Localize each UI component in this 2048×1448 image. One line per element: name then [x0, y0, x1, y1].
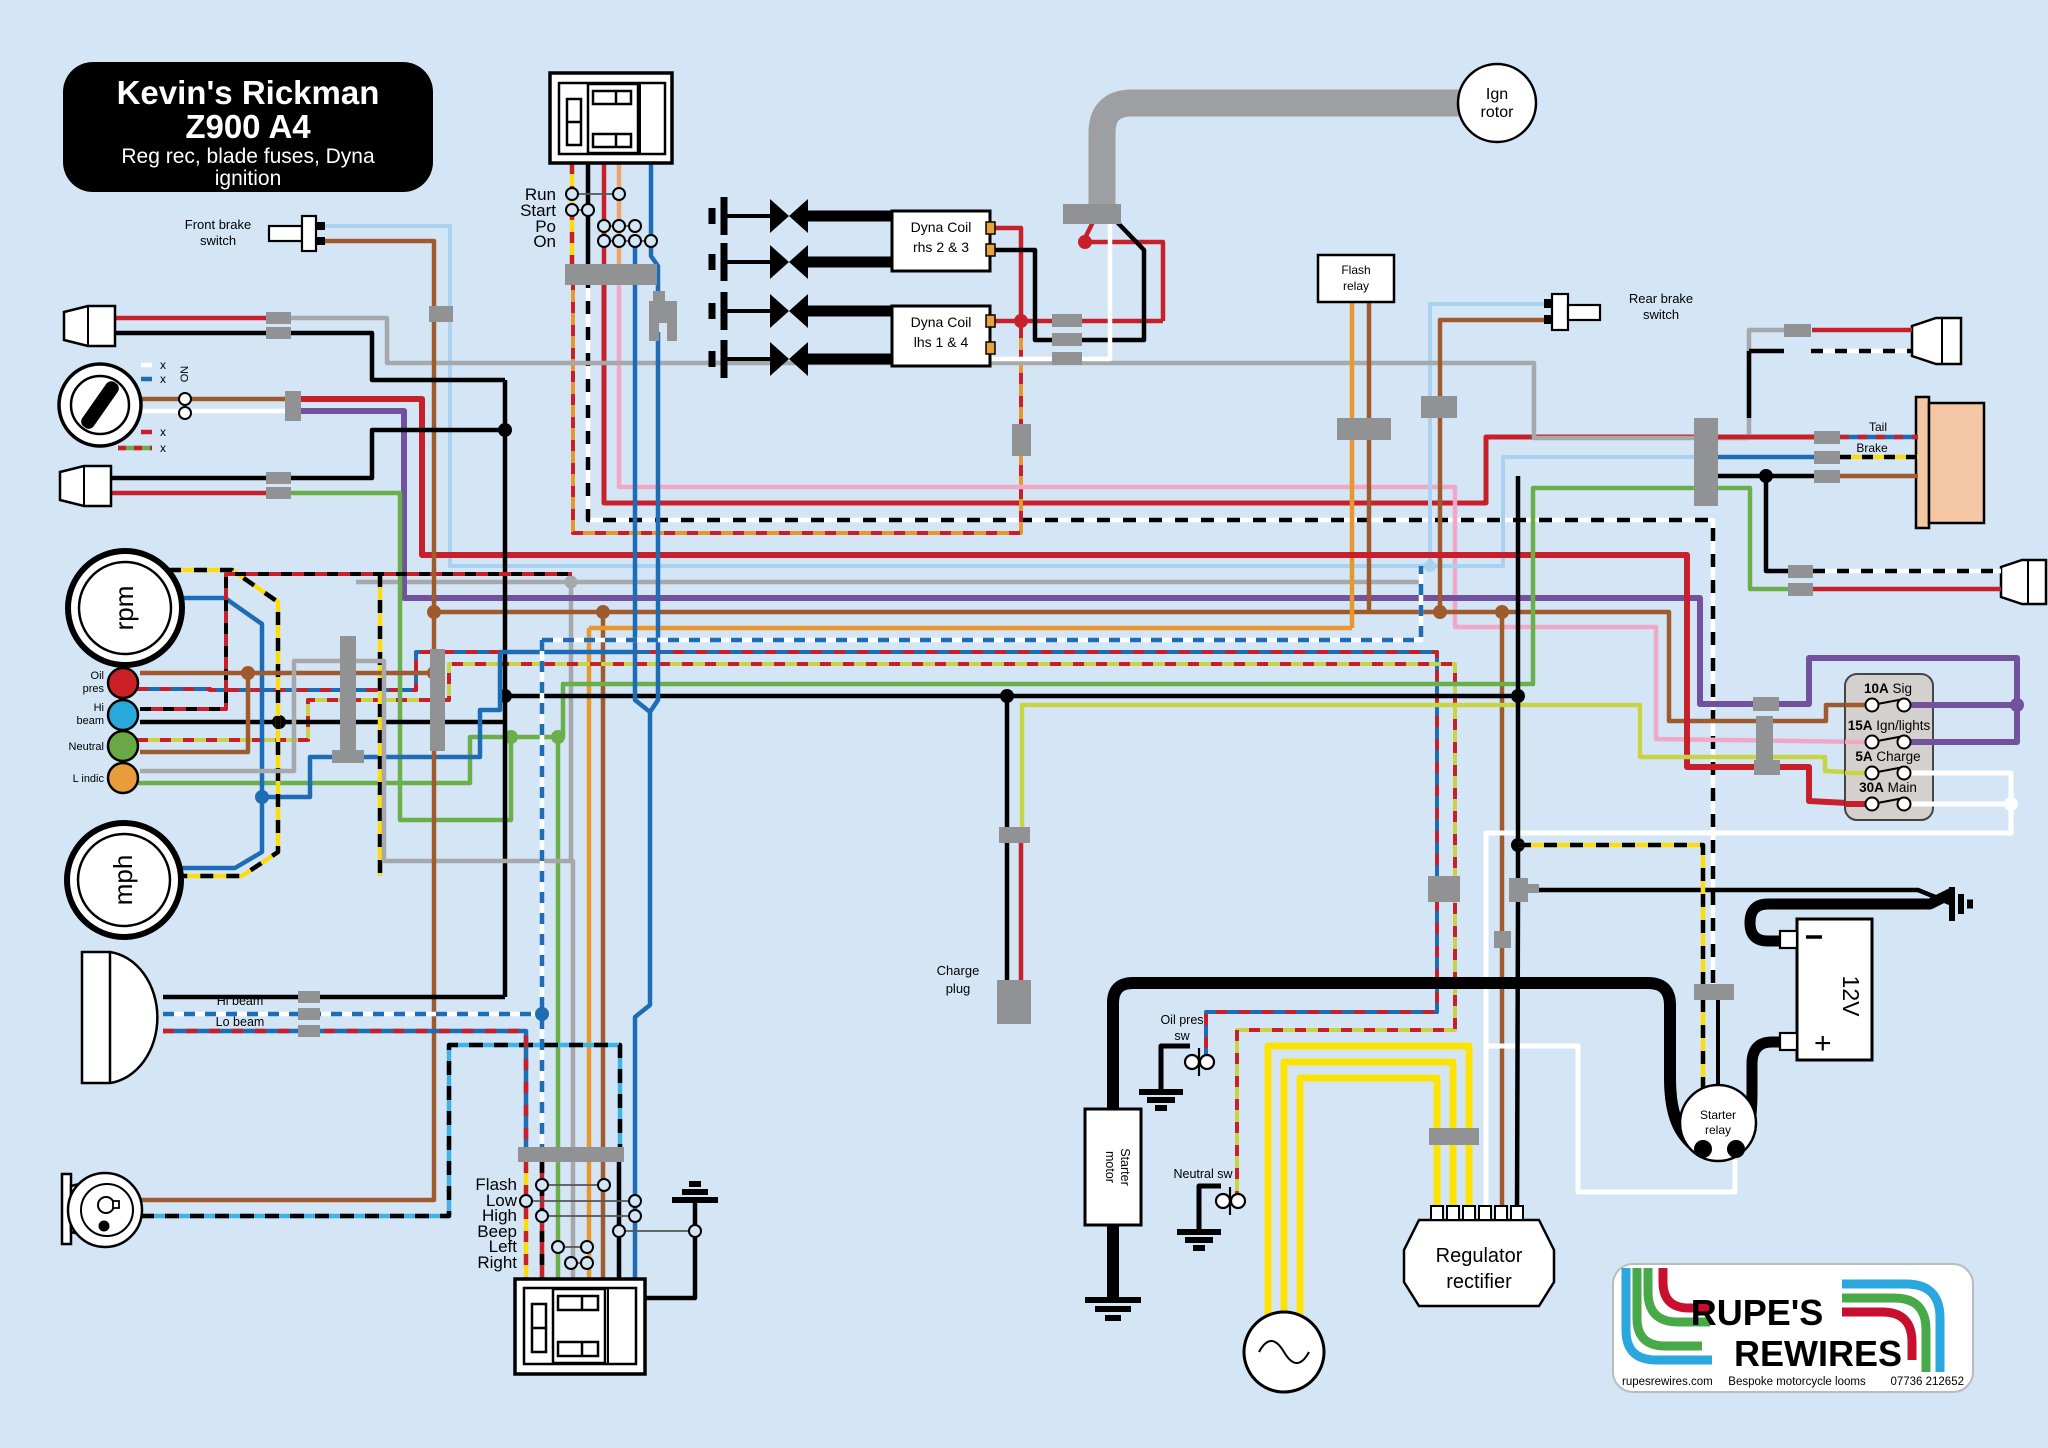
connector rear lower white: [1788, 565, 1813, 578]
connector flash relay: [1337, 418, 1391, 440]
left indicator lamp: [108, 763, 138, 793]
wire white coil: [990, 222, 1110, 359]
wire black thin to battery earth: [1530, 890, 1950, 903]
connector ignition: [285, 391, 301, 421]
tail lamp: [1916, 397, 1929, 528]
connector coil black: [1052, 333, 1082, 346]
spark plug 3: [709, 303, 716, 319]
ignition coil U1 Dyna Coil rhs 2 & 3: [892, 211, 990, 271]
svg-text:x: x: [160, 372, 166, 386]
svg-text:Dyna Coil: Dyna Coil: [911, 314, 972, 330]
connector charge lime/red: [999, 827, 1030, 843]
wire brown to regulator rectifier: [1500, 612, 1505, 1214]
rear indicator upper: [1912, 318, 1961, 364]
wire tail (blue/red dash): [1840, 435, 1918, 440]
wire lime/red dashed (neutral): [137, 664, 1455, 1197]
svg-text:Kevin's Rickman: Kevin's Rickman: [117, 74, 380, 111]
svg-text:Hi: Hi: [94, 702, 104, 714]
connector headlamp black: [298, 991, 320, 1003]
wire brown drop to LH switch: [601, 612, 606, 1150]
svg-text:switch: switch: [1643, 307, 1679, 322]
connector tail blue: [1814, 451, 1840, 464]
wire brown main bus: [434, 612, 1866, 721]
wire brown rear brake drop: [1440, 320, 1544, 612]
wire brown flash relay drop: [1367, 302, 1372, 612]
connector tail main: [1694, 418, 1718, 506]
svg-text:Neutral sw: Neutral sw: [1173, 1167, 1233, 1181]
connector front upper red: [266, 312, 291, 324]
connector fork blue: [649, 291, 677, 341]
title block: [63, 62, 433, 192]
connector tail black: [1814, 470, 1840, 483]
RH switch rocker: [588, 84, 638, 153]
svg-text:Starter: Starter: [1118, 1148, 1132, 1186]
svg-text:sw: sw: [1174, 1029, 1190, 1043]
wire HT lead 4: [808, 354, 893, 365]
svg-text:REWIRES: REWIRES: [1734, 1333, 1902, 1374]
wire white 30A right stub: [1910, 802, 1935, 807]
ground starter motor: [1085, 1297, 1141, 1303]
diode gap spark plug 4: [770, 342, 789, 376]
spark plug 4: [709, 351, 716, 367]
connector front brake: [429, 306, 453, 322]
wire white/black dashed rear upper indicator: [1811, 349, 1912, 354]
wire white (fuse outputs to reg rec and starter relay): [1486, 773, 2011, 1214]
wire black/white dashed (start circuit to starter relay): [588, 275, 1713, 986]
RH switch slider: [567, 99, 581, 145]
svg-text:Charge: Charge: [937, 963, 980, 978]
svg-text:relay: relay: [1343, 279, 1369, 293]
wire ignition switch stubs: [141, 363, 152, 368]
svg-text:relay: relay: [1705, 1123, 1731, 1137]
wire red charge plug: [1019, 843, 1024, 982]
wire orange bus (indicator feed): [589, 626, 1352, 631]
connector red fuse: [1754, 760, 1780, 775]
mph gauge: [67, 823, 181, 937]
RH switch contacts: [572, 193, 619, 195]
wire black tail connector: [1718, 474, 1816, 479]
svg-text:Bespoke motorcycle looms: Bespoke motorcycle looms: [1728, 1376, 1866, 1388]
wire orange/red dashed (run circuit to dyna coils): [573, 279, 1021, 533]
svg-text:rotor: rotor: [1481, 104, 1515, 121]
wire black earth bus: [505, 694, 1518, 699]
connector coil red: [1052, 314, 1082, 327]
wire pink 15A stub: [1845, 740, 1866, 745]
wire white 5A right stub: [1910, 771, 1935, 776]
connector reg rec brown: [1494, 931, 1511, 948]
wire red rear lower indicator: [1813, 587, 2001, 592]
svg-text:L indic: L indic: [73, 773, 105, 785]
wire gray (front indicator to rear indicator): [291, 318, 1700, 438]
connector black T: [1509, 878, 1528, 902]
svg-text:ON: ON: [179, 366, 191, 383]
wire black rear upper indicator stub: [1749, 349, 1784, 354]
wire red tail connector: [1718, 435, 1816, 440]
wire blue fork branch: [651, 163, 658, 291]
wire yellow/black below connector: [1701, 999, 1706, 1090]
svg-text:On: On: [533, 232, 556, 251]
connector front lower red: [266, 487, 291, 499]
starter motor cable thick: [1113, 983, 1700, 1150]
front indicator upper: [64, 306, 115, 346]
wire green drop to LH switch: [556, 737, 561, 1150]
svg-text:Dyna Coil: Dyna Coil: [911, 219, 972, 235]
wire black front indicators: [115, 333, 505, 380]
spark plug 2: [709, 254, 716, 270]
svg-text:Right: Right: [477, 1253, 517, 1272]
svg-text:Starter: Starter: [1700, 1108, 1736, 1122]
alternator: [1244, 1312, 1324, 1392]
wire black vertical (indicators / headlamp earth): [503, 380, 508, 997]
svg-text:Brake: Brake: [1856, 441, 1888, 455]
ignition coil U2 Dyna Coil lhs 1 & 4: [892, 306, 990, 366]
pin 3 reg rec: [1463, 1206, 1475, 1220]
svg-text:07736 212652: 07736 212652: [1890, 1376, 1964, 1388]
wire white/black dashed rear lower indicator: [1813, 569, 2001, 574]
wire right switch drops above connector: [570, 163, 575, 264]
svg-text:Regulator: Regulator: [1436, 1245, 1523, 1267]
svg-text:Rear brake: Rear brake: [1629, 291, 1693, 306]
svg-text:x: x: [160, 425, 166, 439]
wire purple 10A sig branch: [1910, 702, 2017, 708]
wire blue/red dashed (oil pressure): [137, 652, 1437, 1058]
svg-text:mph: mph: [108, 855, 138, 906]
connector front lower black: [266, 472, 291, 484]
logo Rupes Rewires: [1613, 1264, 1973, 1392]
wire red coil feed: [1085, 222, 1093, 242]
connector alternator: [1429, 1128, 1479, 1145]
svg-text:Front brake: Front brake: [185, 217, 251, 232]
ground LH switch: [689, 1181, 701, 1187]
svg-text:Lo beam: Lo beam: [216, 1015, 265, 1029]
wire yellow/black dashed vertical branch: [378, 574, 383, 876]
wire blue brake connector: [1718, 455, 1816, 460]
wire red/black dashed (hi beam flash): [140, 574, 572, 709]
connector rear upper indicator: [1784, 324, 1811, 337]
svg-text:Reg rec, blade fuses, Dyna: Reg rec, blade fuses, Dyna: [121, 145, 375, 168]
pin 1 reg rec: [1431, 1206, 1443, 1220]
svg-text:rectifier: rectifier: [1446, 1271, 1512, 1293]
pin 5 reg rec: [1495, 1206, 1507, 1220]
hi beam lamp: [108, 700, 138, 730]
svg-text:Oil: Oil: [91, 670, 104, 682]
connector oil/neutral dashed pair: [1428, 876, 1460, 902]
pin 6 reg rec: [1511, 1206, 1523, 1220]
rpm gauge: [68, 551, 182, 665]
front indicator lower: [60, 466, 111, 506]
battery positive cable: [1736, 1042, 1784, 1152]
wire blue gauge (rpm-mph): [182, 598, 262, 868]
ground battery earth: [1949, 887, 1955, 921]
wire starter motor earth: [1107, 1225, 1119, 1300]
wire green to rear lower indicator: [1718, 488, 1790, 589]
svg-text:RUPE'S: RUPE'S: [1691, 1292, 1824, 1333]
wire yellow alternator 1: [1300, 1078, 1437, 1315]
wire red rear upper indicator: [1812, 328, 1912, 333]
wire green from front indicator: [291, 493, 511, 820]
svg-text:5A Charge: 5A Charge: [1855, 749, 1920, 764]
diode gap spark plug 3: [770, 294, 789, 328]
wire purple (ignition sw to fuse box): [299, 411, 2017, 742]
wire blue bus segment (gauge feed): [500, 650, 635, 655]
battery negative cable: [1750, 893, 1952, 941]
wire HT lead 2: [808, 257, 893, 268]
ignition switch: [59, 364, 141, 446]
wire gray ignition rotor cable: [1102, 103, 1459, 208]
svg-text:Hi beam: Hi beam: [217, 994, 264, 1008]
starter relay: [1680, 1085, 1756, 1161]
rear indicator lower: [2001, 560, 2046, 604]
connector brown/pink fuse: [1756, 716, 1773, 763]
wire brown oil-pres lamp: [140, 671, 434, 676]
wire cyan/black dashed horn: [140, 1045, 620, 1216]
svg-text:rhs 2 & 3: rhs 2 & 3: [913, 239, 969, 255]
wire orange drop to LH switch: [587, 628, 592, 1150]
svg-text:rupesrewires.com: rupesrewires.com: [1622, 1376, 1713, 1388]
svg-text:motor: motor: [1103, 1151, 1117, 1183]
battery: [1797, 919, 1872, 1060]
wire salmon below connector becomes pink handled above: [617, 264, 622, 285]
wire yellow alternator 3: [1268, 1046, 1469, 1315]
connector RH switch: [565, 264, 657, 285]
headlamp: [82, 952, 157, 1083]
connector headlamp hi: [298, 1008, 320, 1020]
connector instrument loom (tall): [340, 636, 356, 750]
wire yellow alternator 2: [1284, 1062, 1453, 1315]
svg-text:rpm: rpm: [109, 586, 139, 631]
connector tail red: [1814, 431, 1840, 444]
starter motor: [1085, 1109, 1141, 1225]
wire brake (yellow/black dash): [1840, 455, 1918, 460]
svg-text:30A Main: 30A Main: [1859, 780, 1917, 795]
neutral lamp: [108, 731, 138, 761]
svg-text:pres: pres: [83, 683, 105, 695]
connector LH switch: [518, 1147, 624, 1162]
diode gap spark plug 1: [770, 199, 789, 233]
connector rear brake: [1421, 396, 1457, 418]
diode gap spark plug 2: [770, 245, 789, 279]
LH switch contacts: [542, 1184, 604, 1186]
connector purple fuse: [1753, 697, 1779, 711]
wire red tail feed (switch run to tail lamp): [604, 275, 1816, 503]
wire brown 10A stub: [1845, 703, 1866, 708]
wire purple 15A right stub: [1910, 739, 1935, 745]
connector instrument loom right (tall): [430, 649, 445, 751]
wire black LH switch earth: [645, 1200, 695, 1298]
svg-text:15A Ign/lights: 15A Ign/lights: [1848, 718, 1931, 733]
connector headlamp lo: [298, 1025, 320, 1037]
wire gray drop to LH switch: [571, 582, 573, 1150]
svg-text:Flash: Flash: [1341, 263, 1370, 277]
wire brown neutral lamp: [140, 673, 248, 752]
svg-text:plug: plug: [946, 981, 971, 996]
wire orange flash relay drop: [1350, 302, 1355, 628]
wire light blue rear brake drop: [1430, 304, 1544, 566]
connector coil white: [1052, 352, 1082, 365]
pin 4 reg rec: [1479, 1206, 1491, 1220]
wire pink (power to 15A fuse): [619, 279, 1866, 742]
svg-text:x: x: [160, 441, 166, 455]
wire black headlamp earth: [163, 995, 505, 1000]
connector front upper black: [266, 327, 291, 339]
wire tail earth brown: [1840, 474, 1918, 479]
wire brown front brake / horn vertical: [140, 241, 434, 1200]
ground oil pressure switch: [1139, 1089, 1183, 1095]
connector coil leads: [1063, 204, 1121, 224]
wire purple 10A right stub: [1910, 702, 1935, 708]
wire HT lead 3: [808, 306, 893, 317]
svg-text:beam: beam: [76, 715, 104, 727]
svg-text:lhs 1 & 4: lhs 1 & 4: [914, 334, 969, 350]
svg-text:+: +: [1814, 1027, 1832, 1060]
wire LH switch wires below connector to box: [524, 1162, 529, 1279]
svg-text:Neutral: Neutral: [69, 741, 104, 753]
spark plug 1: [709, 208, 716, 224]
svg-text:Oil pres: Oil pres: [1160, 1013, 1203, 1027]
wire red main feed (ignition to 30A fuse): [299, 399, 1866, 804]
wire light blue (brake switches to tail brake): [325, 226, 1700, 566]
wire lime 5A stub: [1845, 771, 1866, 776]
wire lime (charge plug to 5A fuse): [1022, 705, 1866, 828]
wire white/blue dashed hi beam: [163, 1012, 542, 1017]
wire blue dashed vertical hi beam: [540, 640, 545, 1150]
svg-text:x: x: [160, 358, 166, 372]
wire HT lead 1: [808, 211, 893, 222]
wire blue/red dashed lo beam: [163, 1031, 526, 1150]
wire yellow/black dashed gauge loop: [168, 570, 278, 876]
flash relay: [1318, 255, 1394, 302]
wire black to reg rec pin 6: [1517, 902, 1518, 1214]
pin 2 reg rec: [1447, 1206, 1459, 1220]
connector starter relay wires: [1694, 984, 1734, 1000]
wire gray bus (instrument): [356, 580, 1421, 585]
wire black tail-light vertical: [1516, 476, 1521, 878]
ign rotor: [1458, 64, 1536, 142]
oil pressure lamp: [108, 668, 138, 698]
wire red front indicators: [115, 316, 266, 321]
wire black rear indicator drop: [1766, 476, 1790, 571]
svg-text:10A Sig: 10A Sig: [1864, 681, 1912, 696]
connector rear lower red: [1788, 583, 1813, 596]
wire black starter relay trigger: [1716, 999, 1720, 1090]
svg-text:Ign: Ign: [1486, 86, 1508, 103]
horn: [62, 1174, 71, 1244]
rear brake switch: [1544, 299, 1553, 308]
svg-text:Z900 A4: Z900 A4: [185, 108, 311, 145]
wire yellow/black dashed (to starter relay): [1518, 845, 1703, 986]
svg-text:12V: 12V: [1838, 976, 1864, 1018]
wire green bus (rear indicator circuit): [137, 488, 1700, 783]
wire blue (On circuit right switch to LH switch): [635, 245, 650, 1279]
ground neutral switch: [1177, 1229, 1221, 1235]
wire gray L-indic lamp: [140, 661, 573, 861]
regulator rectifier: [1404, 1220, 1554, 1306]
connector orange/red coil drop: [1012, 424, 1031, 456]
wire black charge plug drop: [1005, 696, 1010, 982]
svg-text:Tail: Tail: [1869, 420, 1887, 434]
connector instrument loom (small): [332, 750, 364, 763]
wire black Hi-beam lamp earth: [140, 720, 505, 725]
wire red 30A stub: [1845, 801, 1866, 807]
wire black coil: [990, 222, 1144, 340]
svg-text:switch: switch: [200, 233, 236, 248]
RH handlebar switch housing: [550, 73, 672, 163]
fuse box: [1845, 674, 1933, 820]
LH handlebar switch housing: [515, 1279, 645, 1374]
svg-text:ignition: ignition: [215, 167, 282, 190]
